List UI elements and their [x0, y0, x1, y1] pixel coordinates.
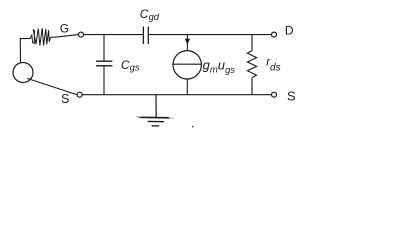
svg-text:S: S	[61, 92, 69, 106]
capacitor Cgd	[143, 27, 148, 45]
resistor RG (sketchy input resistor)	[30, 28, 50, 46]
node G terminal	[79, 32, 84, 37]
node S terminal (left)	[77, 92, 82, 97]
wire (ground stem)	[155, 95, 157, 118]
wire (diagonal from source to S terminal)	[27, 78, 76, 94]
wire (resistor to gate terminal)	[51, 35, 79, 38]
wire (rds branch bottom)	[251, 78, 253, 95]
wire (current source branch bottom)	[186, 79, 188, 95]
node D terminal	[272, 32, 277, 37]
svg-text:D: D	[285, 24, 294, 38]
arrow (current direction, downward)	[185, 39, 190, 45]
ground	[136, 117, 174, 126]
wire (current source branch top with arrow)	[186, 35, 188, 51]
wire (Cgs branch bottom)	[103, 66, 105, 94]
wire (bottom rail: S to S)	[82, 94, 271, 96]
wire (source top up and over to resistor)	[20, 38, 30, 62]
wire (Cgs branch top)	[103, 35, 105, 61]
resistor rds	[247, 51, 256, 78]
wire (rds branch top)	[251, 35, 253, 51]
capacitor Cgs	[96, 61, 112, 66]
svg-text:G: G	[60, 21, 69, 35]
current source gm*ugs (circle with bar)	[173, 51, 201, 79]
node S terminal (right)	[272, 92, 277, 97]
wire (top rail: Cgd right plate to D terminal)	[149, 34, 272, 36]
svg-text:S: S	[287, 89, 296, 104]
wire (top rail: G to Cgd left plate)	[84, 34, 143, 36]
voltage source V1 (input source circle)	[13, 63, 33, 83]
stray mark	[192, 126, 194, 128]
